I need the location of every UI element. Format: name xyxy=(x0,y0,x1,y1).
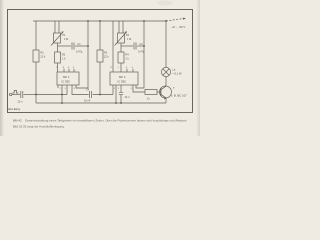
node rail V6 xyxy=(143,20,145,22)
wire V6 rail loop to IC2 xyxy=(136,21,144,88)
wire V4 rail to R3 xyxy=(99,21,101,50)
svg-text:z. B. BC 107: z. B. BC 107 xyxy=(171,94,187,98)
wire input to C5 xyxy=(12,94,20,96)
wire collector to lamp xyxy=(165,77,167,87)
resistor R1 xyxy=(33,50,39,62)
wire Vcc IC2 xyxy=(112,21,114,72)
node C1-V3 xyxy=(87,45,89,47)
capacitor C6 plates xyxy=(119,92,123,94)
svg-text:10 n: 10 n xyxy=(18,101,23,104)
input terminal xyxy=(9,93,11,95)
lamp La xyxy=(161,67,170,76)
wire P2 to R4 xyxy=(120,43,122,52)
svg-text:IC 555: IC 555 xyxy=(62,80,71,84)
capacitor C2 xyxy=(134,43,136,50)
capacitor C5 xyxy=(21,91,23,98)
svg-text:Bild 32.03 zeigt die Anschlußb: Bild 32.03 zeigt die Anschlußbelegung. xyxy=(13,125,65,129)
wire C4 to IC2 trigger xyxy=(93,85,113,95)
IC2 U2 xyxy=(110,72,138,85)
node input-R1 xyxy=(35,94,37,96)
capacitor C1 xyxy=(72,43,74,50)
capacitor C4 xyxy=(90,91,92,98)
svg-text:1 M: 1 M xyxy=(64,38,68,41)
svg-text:0,47µ: 0,47µ xyxy=(138,51,145,54)
node gnd-cross xyxy=(61,94,63,96)
node rail lamp xyxy=(165,20,167,22)
pot P2 stubs xyxy=(119,21,123,33)
wire V3 rail loop to IC1 xyxy=(76,21,88,88)
svg-text:≈ 0,1 W: ≈ 0,1 W xyxy=(173,72,182,76)
svg-text:BM 42: BM 42 xyxy=(13,119,22,123)
IC1 U1 xyxy=(57,72,79,85)
wire emitter to rail xyxy=(165,98,167,103)
wire R3 to trigger node xyxy=(99,62,101,95)
wire P1 to R2 xyxy=(57,43,59,52)
node rail V3 xyxy=(87,20,89,22)
potentiometer P1 xyxy=(54,33,61,43)
wire IC1 gnd pin xyxy=(61,85,63,103)
wire R4 to IC2 xyxy=(120,63,122,72)
pot P2 arrow xyxy=(115,32,127,46)
node rail V4 xyxy=(99,20,101,22)
wire IC1 out to C4 xyxy=(72,85,89,95)
node gnd rail IC2b xyxy=(120,102,122,104)
wire C2 branch left xyxy=(121,45,133,47)
svg-text:IC 555: IC 555 xyxy=(118,80,127,84)
svg-text:MF 2: MF 2 xyxy=(119,75,126,79)
wire trigger row IC1 xyxy=(36,85,67,95)
wire C1 to V3 xyxy=(75,45,88,47)
svg-text:MF 1: MF 1 xyxy=(63,75,70,79)
wire C2 to V6 xyxy=(137,45,144,47)
svg-text:10 nF: 10 nF xyxy=(84,100,91,103)
svg-text:10 n: 10 n xyxy=(125,96,130,99)
supply rail top xyxy=(33,20,166,22)
node gnd rail IC2a xyxy=(115,102,117,104)
svg-text:22 k: 22 k xyxy=(104,56,109,59)
IC2 top pin stubs xyxy=(127,69,133,72)
resistor R5 xyxy=(145,90,157,95)
ground rail bottom xyxy=(36,102,166,104)
wire C5 to node xyxy=(24,94,36,96)
IC2 gnd pin xyxy=(115,85,117,103)
pulse symbol xyxy=(12,90,18,93)
resistor R4 xyxy=(118,52,124,63)
svg-text:+9 ... 30 V: +9 ... 30 V xyxy=(172,25,186,29)
transistor Q1 xyxy=(160,86,172,98)
supply dashed lead-out xyxy=(166,19,183,21)
wire rail to lamp xyxy=(165,21,167,67)
svg-text:22 k: 22 k xyxy=(41,56,46,59)
wire IC1 pin stub xyxy=(57,85,59,88)
potentiometer P2 xyxy=(118,33,125,43)
wire R2 to IC1 xyxy=(57,63,59,72)
wire IC2 output xyxy=(133,85,145,92)
pot P1 arrow xyxy=(51,32,63,46)
wire C1 branch left xyxy=(58,45,72,47)
svg-text:Takt-Eing.: Takt-Eing. xyxy=(7,107,21,111)
node C2-V6 xyxy=(143,45,145,47)
paper smudge xyxy=(157,1,173,6)
svg-text:1 M: 1 M xyxy=(127,38,131,41)
node R3-trigger xyxy=(99,94,101,96)
wire R5 to base xyxy=(157,91,161,93)
svg-text:0,47µ: 0,47µ xyxy=(76,51,83,54)
resistor R2 xyxy=(55,52,61,63)
resistor R3 xyxy=(97,50,103,62)
IC1 top pin stubs xyxy=(64,69,74,72)
wire R1 to input node xyxy=(35,62,37,103)
border frame xyxy=(8,10,193,113)
node gnd rail IC1 xyxy=(61,102,63,104)
supply arrowhead xyxy=(183,18,186,20)
pot P1 stubs xyxy=(55,21,59,33)
wire V1 rail to R1 xyxy=(35,21,37,50)
svg-text:Gesamtschaltung eines Taktgebe: Gesamtschaltung eines Taktgebers mit ein… xyxy=(25,119,187,123)
IC2 pin5 stub xyxy=(120,85,122,103)
